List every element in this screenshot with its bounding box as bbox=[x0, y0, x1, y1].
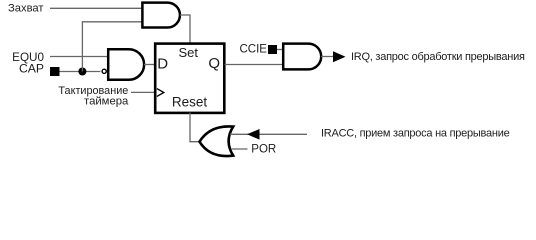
wire Захват to AND1 input1 bbox=[50, 7, 143, 9]
svg-text:Reset: Reset bbox=[172, 95, 208, 110]
arrowhead IRACC input bbox=[247, 129, 260, 140]
input terminal square CCIE bbox=[268, 45, 277, 54]
wire AND3 output to IRQ arrow bbox=[321, 56, 334, 58]
svg-text:таймера: таймера bbox=[84, 95, 129, 107]
svg-text:Q: Q bbox=[208, 55, 220, 72]
arrowhead IRQ output bbox=[333, 51, 346, 62]
flip-flop U3 box bbox=[155, 44, 224, 113]
svg-text:Захват: Захват bbox=[8, 2, 44, 14]
wire IRACC to OR input1 bbox=[230, 133, 307, 135]
wire POR stub to OR input2 bbox=[231, 148, 248, 150]
svg-text:CCIE: CCIE bbox=[240, 43, 268, 55]
inverter bubble on AND2 input2 bbox=[102, 69, 106, 73]
AND gate U4 interrupt enable bbox=[283, 44, 321, 70]
wire CAP branch up to AND1 input2 bbox=[82, 22, 143, 72]
wire flip-flop Q to AND3 input2 bbox=[225, 64, 284, 66]
svg-text:CAP: CAP bbox=[19, 62, 44, 76]
AND gate U2 compare (inverted CAP input) bbox=[108, 49, 144, 80]
wire EQU0 to AND2 input1 bbox=[50, 56, 108, 58]
input terminal square CAP bbox=[50, 67, 60, 76]
svg-text:D: D bbox=[157, 55, 168, 72]
svg-text:POR: POR bbox=[251, 144, 276, 156]
wire AND2 output to flip-flop D bbox=[144, 64, 155, 66]
wire AND1 output to flip-flop Set bbox=[180, 15, 190, 43]
wire CCIE to AND3 input1 bbox=[277, 49, 283, 51]
svg-text:Set: Set bbox=[178, 45, 198, 60]
clock pin triangle bbox=[157, 89, 164, 97]
OR gate U5 reset (left-pointing) bbox=[200, 126, 234, 156]
svg-text:IRQ, запрос обработки прерыван: IRQ, запрос обработки прерывания bbox=[351, 51, 525, 63]
wire clock to flip-flop bbox=[131, 91, 155, 93]
svg-text:IRACC, прием запроса на прерыв: IRACC, прием запроса на прерывание bbox=[321, 128, 510, 140]
wire flip-flop Reset to OR output bbox=[190, 113, 200, 142]
junction node CAP branch bbox=[78, 68, 86, 76]
wire CAP to AND2 inverted input bbox=[60, 71, 101, 73]
AND gate U1 capture bbox=[142, 3, 180, 28]
